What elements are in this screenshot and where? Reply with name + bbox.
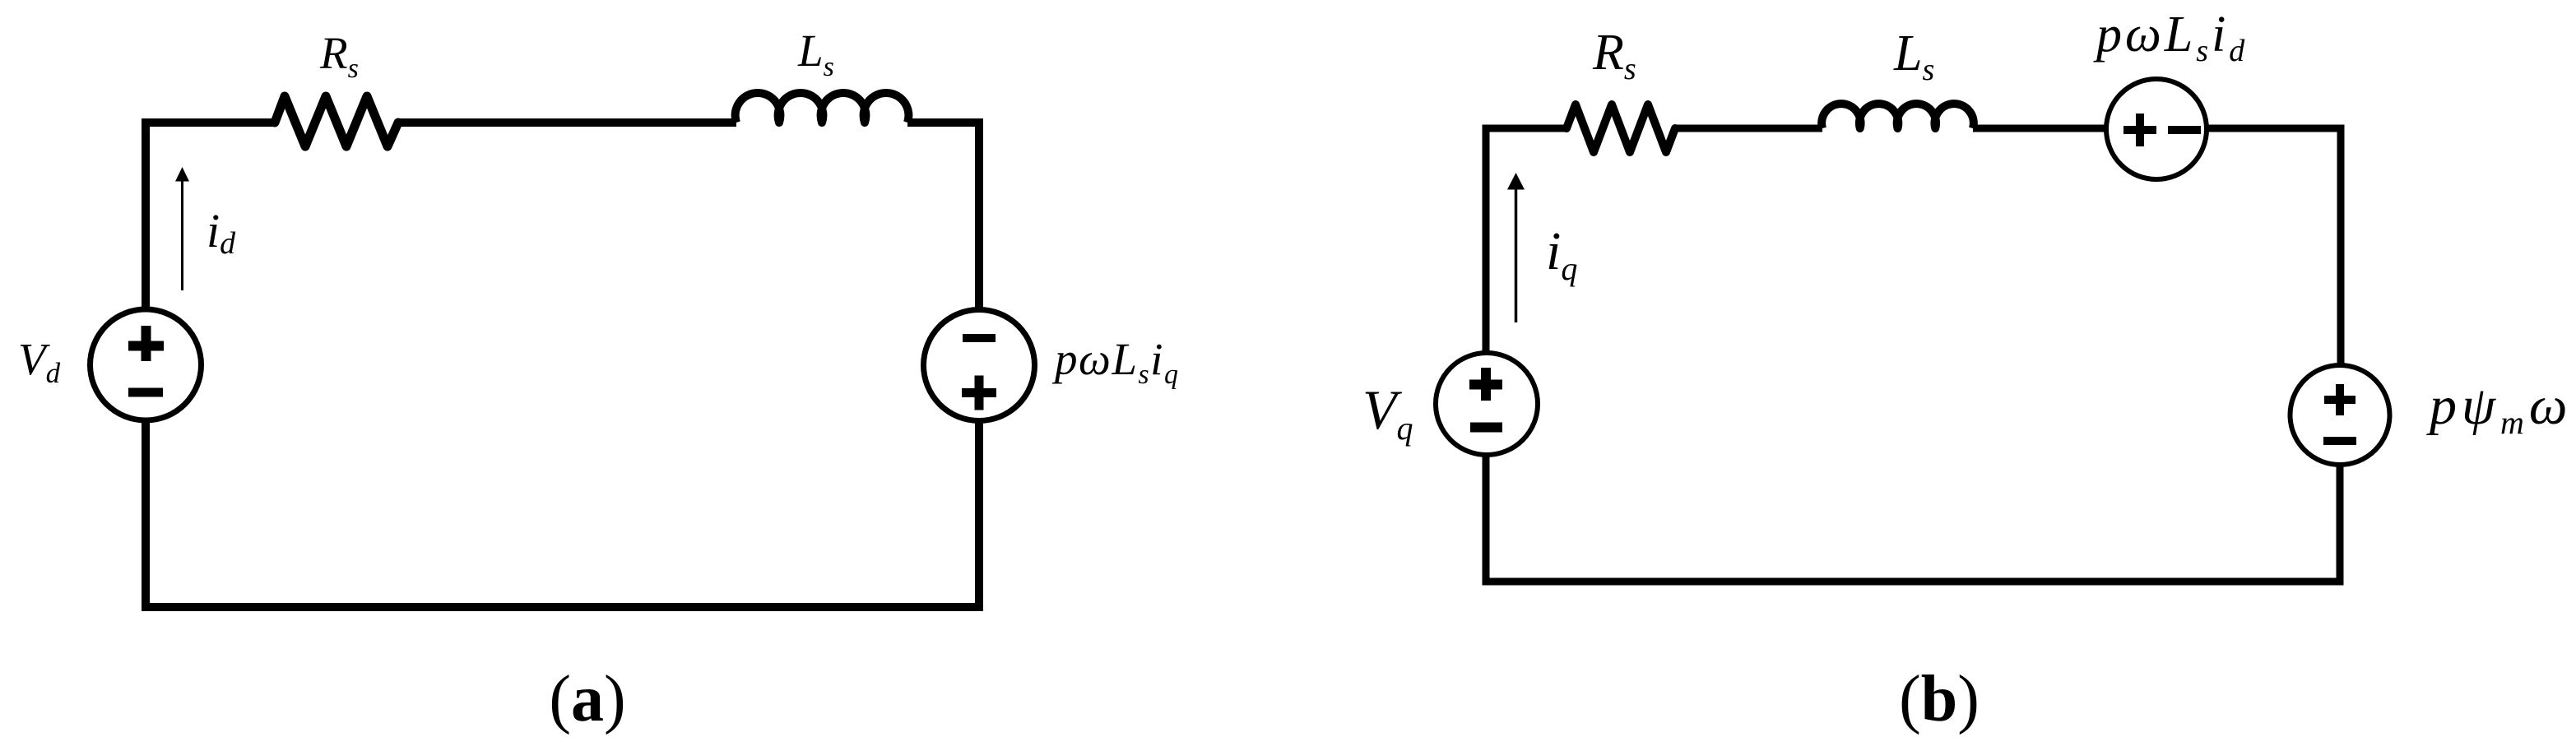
svg-text:Vd: Vd [18,334,61,389]
dependent source pwLsiq (a) [924,310,1035,421]
minus sign of source (a) [963,334,996,342]
svg-text:id: id [207,204,236,261]
wire: series source right, down right side to source ppsi top (b) [2208,128,2341,364]
series dependent source pwLsid (b) [2106,79,2207,179]
svg-text:Rs: Rs [1592,25,1636,86]
wire: dependent source bottom, bottom rail, up to Vd bottom (a) [146,423,979,608]
current arrow iq (b) [1515,187,1518,322]
plus sign of right source (b) [2324,384,2356,415]
plus sign of source (a) [962,376,996,410]
svg-text:pωLsiq: pωLsiq [1051,334,1179,390]
wire: right source bottom, bottom rail, up to Vq bottom (b) [1486,457,2340,582]
svg-text:iq: iq [1546,221,1577,287]
svg-text:Vq: Vq [1362,378,1413,447]
svg-text:pψmω: pψmω [2426,376,2573,441]
voltage source Vd (a) [91,309,202,420]
svg-text:(b): (b) [1899,663,1980,735]
plus sign of series source (b) [2123,114,2156,146]
resistor Rs (a) [275,96,398,146]
plus sign of Vq [1469,368,1502,401]
minus sign of Vd [128,388,163,397]
svg-text:Ls: Ls [797,25,834,82]
dependent source ppsi-m-w (b) [2291,365,2390,465]
wire: inductor Ls to series source left (b) [1973,125,2105,132]
wire: Vq top up left side and across to resistor Rs (b) [1486,128,1566,351]
svg-text:(a): (a) [549,663,625,735]
inductor Ls (b) [1822,104,1974,128]
wire: resistor Rs to inductor Ls (b) [1675,125,1822,132]
minus sign of Vq [1470,423,1502,433]
current arrow id (a) [181,180,183,290]
wire: resistor Rs to inductor Ls (a) [398,118,736,127]
svg-text:Ls: Ls [1893,25,1934,87]
inductor Ls (a) [736,93,909,123]
resistor Rs (b) [1566,104,1675,152]
svg-text:pωLsid: pωLsid [2093,7,2248,68]
minus sign of series source (b) [2168,126,2201,134]
plus sign of Vd [128,326,164,361]
minus sign of right source (b) [2323,437,2356,445]
wire: inductor Ls to dependent source top (a) [907,123,979,308]
wire: Vd top up left side and across to resistor Rs (a) [146,123,275,308]
svg-text:Rs: Rs [319,28,359,84]
voltage source Vq (b) [1436,353,1538,455]
